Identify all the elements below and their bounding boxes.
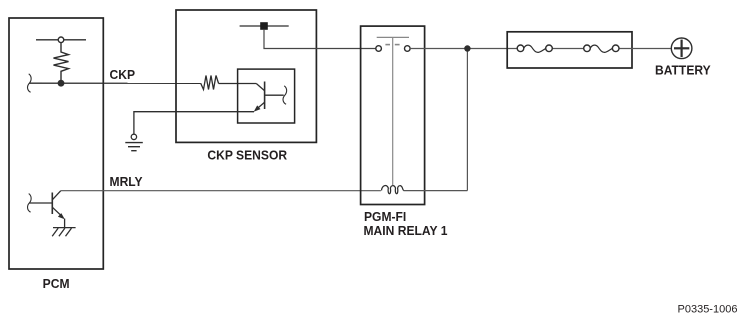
transistor Q (sensor) bar [264,82,266,110]
CKP SENSOR box [176,10,316,142]
svg-text:PCM: PCM [43,277,70,291]
wire fuse box to battery [619,48,672,50]
fuse box [507,32,632,68]
inner box (sensor output stage) [238,69,295,123]
PGM-FI MAIN RELAY 1 box [361,26,425,204]
svg-text:MRLY: MRLY [110,174,144,188]
relay coil L [382,186,404,194]
wire riser up to junction [466,49,468,191]
earth ground (sensor shield) [131,134,136,139]
wire from terminal square down and right to relay contact [264,30,376,49]
wire resistor to transistor collector [219,83,257,85]
wire-break squiggle on MRLY base wire [28,194,32,213]
battery positive terminal symbol [671,38,692,59]
fuse F1 terminal circles [517,45,524,52]
junction dot CKP node [58,80,65,87]
relay contact circles [376,46,382,52]
transistor Q (sensor) base wire [265,94,284,96]
resistor in CKP sensor [201,76,219,90]
sensor supply terminal square [260,22,268,30]
wire-break squiggle on sensor base [283,86,287,105]
wire MRLY base into PCM transistor [30,202,53,204]
PCM internal power terminal line [36,39,86,41]
wire MRLY from PCM transistor collector to relay coil [61,190,381,192]
fuse F1 element [524,45,546,52]
sensor supply terminal line [240,25,289,27]
svg-text:MAIN RELAY 1: MAIN RELAY 1 [364,224,448,238]
wire emitter to ground [64,219,66,228]
wire between fuses [552,48,584,50]
chassis ground (PCM) [53,227,76,229]
transistor Q (sensor) collector diagonal [256,84,264,91]
wire coil to riser [404,190,468,192]
transistor Q (PCM driver) base bar [51,193,53,215]
wire CKP from PCM to CKP sensor resistor [30,82,201,84]
svg-text:P0335-1006: P0335-1006 [678,304,738,316]
transistor Q emitter with arrow [52,207,62,216]
transistor Q (sensor) emitter with arrow [257,102,265,109]
terminal open circle [58,37,64,43]
svg-text:PGM-FI: PGM-FI [364,210,406,224]
svg-text:CKP SENSOR: CKP SENSOR [207,148,287,162]
svg-text:BATTERY: BATTERY [655,63,711,77]
wire emitter out of sensor to ground drop [134,112,254,135]
PCM box [9,18,103,269]
relay armature T bar [377,36,409,38]
svg-text:CKP: CKP [110,68,136,82]
resistor R (pull-up in PCM) [54,43,69,83]
wire relay contact to fuse box [410,48,517,50]
wire-break squiggle left of CKP node [28,74,32,93]
relay contact dashes [385,44,390,46]
fuse F2 terminal circles [584,45,591,52]
transistor Q collector diagonal [52,191,61,200]
junction dot at bus [464,45,470,51]
fuse F2 element [590,45,612,52]
relay armature stem down to coil [392,37,394,185]
